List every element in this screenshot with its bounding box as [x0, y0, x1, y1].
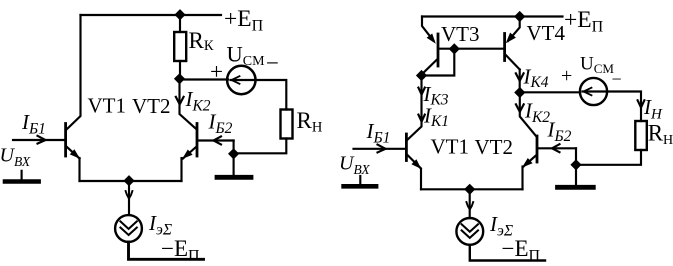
wire: VT2 emitter down (right) [521, 167, 523, 190]
svg-text:VT1: VT1 [88, 94, 127, 118]
arrow: I_E current direction (right) [466, 202, 473, 210]
arrow: I_B1 current direction (right) [378, 145, 386, 153]
arrow: I_K2 current direction (right) [516, 104, 524, 112]
wire: VT1 collector vertical [67, 15, 81, 129]
transistor VT4 emitter with arrow [508, 17, 520, 42]
svg-text:+: + [210, 59, 223, 84]
arrow: I_K1 current direction [418, 115, 424, 122]
wire: VT1 base input [13, 139, 64, 141]
node: VT2 base ground junction [228, 148, 239, 159]
wire: Ucm to Rn [255, 80, 286, 110]
wire: VT2 collector from junction [180, 80, 197, 130]
resistor Rn (left) [281, 110, 293, 139]
wire: emitter rail [80, 180, 182, 182]
wire: VT2 emitter down [180, 158, 182, 181]
node: VT3 collector junction [416, 70, 427, 81]
svg-text:VT4: VT4 [527, 21, 566, 45]
wire: VT1 emitter down [78, 158, 80, 181]
node: junction dot VT4 emitter [514, 11, 525, 22]
ground: VT2 base [217, 175, 251, 180]
wire: Rk bottom lead [179, 61, 181, 78]
wire: VT2 base to node (right) [538, 147, 576, 149]
ground: input reference [21, 171, 23, 180]
svg-text:+: + [561, 65, 572, 87]
wire: Rn bottom to base node [236, 139, 286, 154]
arrow: I_B2 current direction [214, 136, 222, 144]
current source Ucm (left) [227, 66, 255, 94]
transistor VT2 emitter with arrow [183, 147, 196, 159]
wire: node down to ground (right) [575, 148, 577, 185]
wire: diode tie base to collector [422, 49, 455, 76]
node: emitter rail junction [123, 175, 134, 186]
wire: tail to -Ep rail (right) [470, 245, 545, 261]
wire: down to tail source [128, 181, 130, 215]
current source Ucm (right) [580, 78, 607, 105]
svg-text:VT2: VT2 [475, 135, 514, 159]
node: base tie junction [449, 43, 460, 54]
transistor VT1 emitter with arrow [67, 147, 80, 159]
arrow: I_B2 current direction (right) [552, 144, 560, 152]
svg-text:VT3: VT3 [441, 22, 480, 46]
transistor VT3 base bar [437, 34, 440, 66]
wire: VT1 emitter down (right) [420, 169, 422, 189]
transistor VT3 collector [422, 60, 437, 75]
svg-text:VT1: VT1 [431, 135, 470, 159]
ground: VT2 base (right) [558, 185, 594, 190]
transistor VT1 (left) base bar [64, 124, 67, 157]
resistor Rk [174, 32, 186, 61]
ground: input reference (right) [359, 176, 361, 185]
current source I_E (right tail) [456, 218, 483, 245]
node: VT2 collector junction (right) [514, 87, 525, 98]
wire: VT2 base to node [198, 139, 233, 141]
wire: left top rail +Ep [81, 14, 222, 16]
wire: down to tail source (right) [469, 189, 471, 218]
wire: emitter rail (right) [421, 188, 523, 190]
arrow: I_K3 current direction [418, 88, 424, 95]
arrow: I_n current direction [638, 100, 645, 107]
wire: collector down to VT1 [407, 76, 422, 141]
wire: right top rail +Ep [422, 15, 563, 17]
arrow: I_K4 current direction [516, 73, 524, 81]
node: VT2 base ground junction (right) [570, 159, 581, 170]
arrow: I_E current direction [126, 191, 133, 199]
transistor VT2 (left) base bar [196, 124, 199, 157]
transistor VT2 emitter with arrow (right) [523, 156, 536, 167]
wire: node down to ground [233, 141, 235, 176]
wire: junction to Ucm (right) [520, 91, 580, 93]
wire: tail to -Ep rail [129, 242, 204, 259]
node: junction dot top of Rk [174, 9, 185, 20]
wire: VT4 collector down [519, 70, 521, 93]
svg-text:−: − [266, 51, 279, 76]
node: collector VT2 junction [174, 73, 185, 84]
node: emitter rail junction (right) [464, 184, 475, 195]
resistor Rn (right) [635, 121, 647, 150]
transistor VT4 base bar [503, 34, 506, 61]
arrow: I_K2 current direction [176, 97, 184, 105]
wire: VT1 base input (right) [354, 148, 406, 150]
wire: VT2 collector from junction (right) [520, 93, 537, 137]
transistor VT4 collector [506, 55, 520, 70]
wire: junction to Ucm source [180, 78, 229, 80]
transistor VT1 (right) base bar [405, 134, 408, 161]
transistor VT1 emitter with arrow (right) [408, 155, 421, 168]
wire: mirror base wire [439, 48, 503, 50]
current source I_E (left tail) [115, 215, 142, 242]
svg-text:VT2: VT2 [132, 94, 171, 118]
wire: Ucm to Rn (right) [607, 92, 641, 122]
transistor VT3 emitter with arrow [422, 17, 433, 41]
arrow: I_B1 current direction [38, 136, 46, 144]
wire: Rn bottom to base node (right) [579, 150, 641, 165]
wire: Rk top lead [179, 15, 181, 32]
transistor VT2 (right) base bar [536, 136, 539, 162]
